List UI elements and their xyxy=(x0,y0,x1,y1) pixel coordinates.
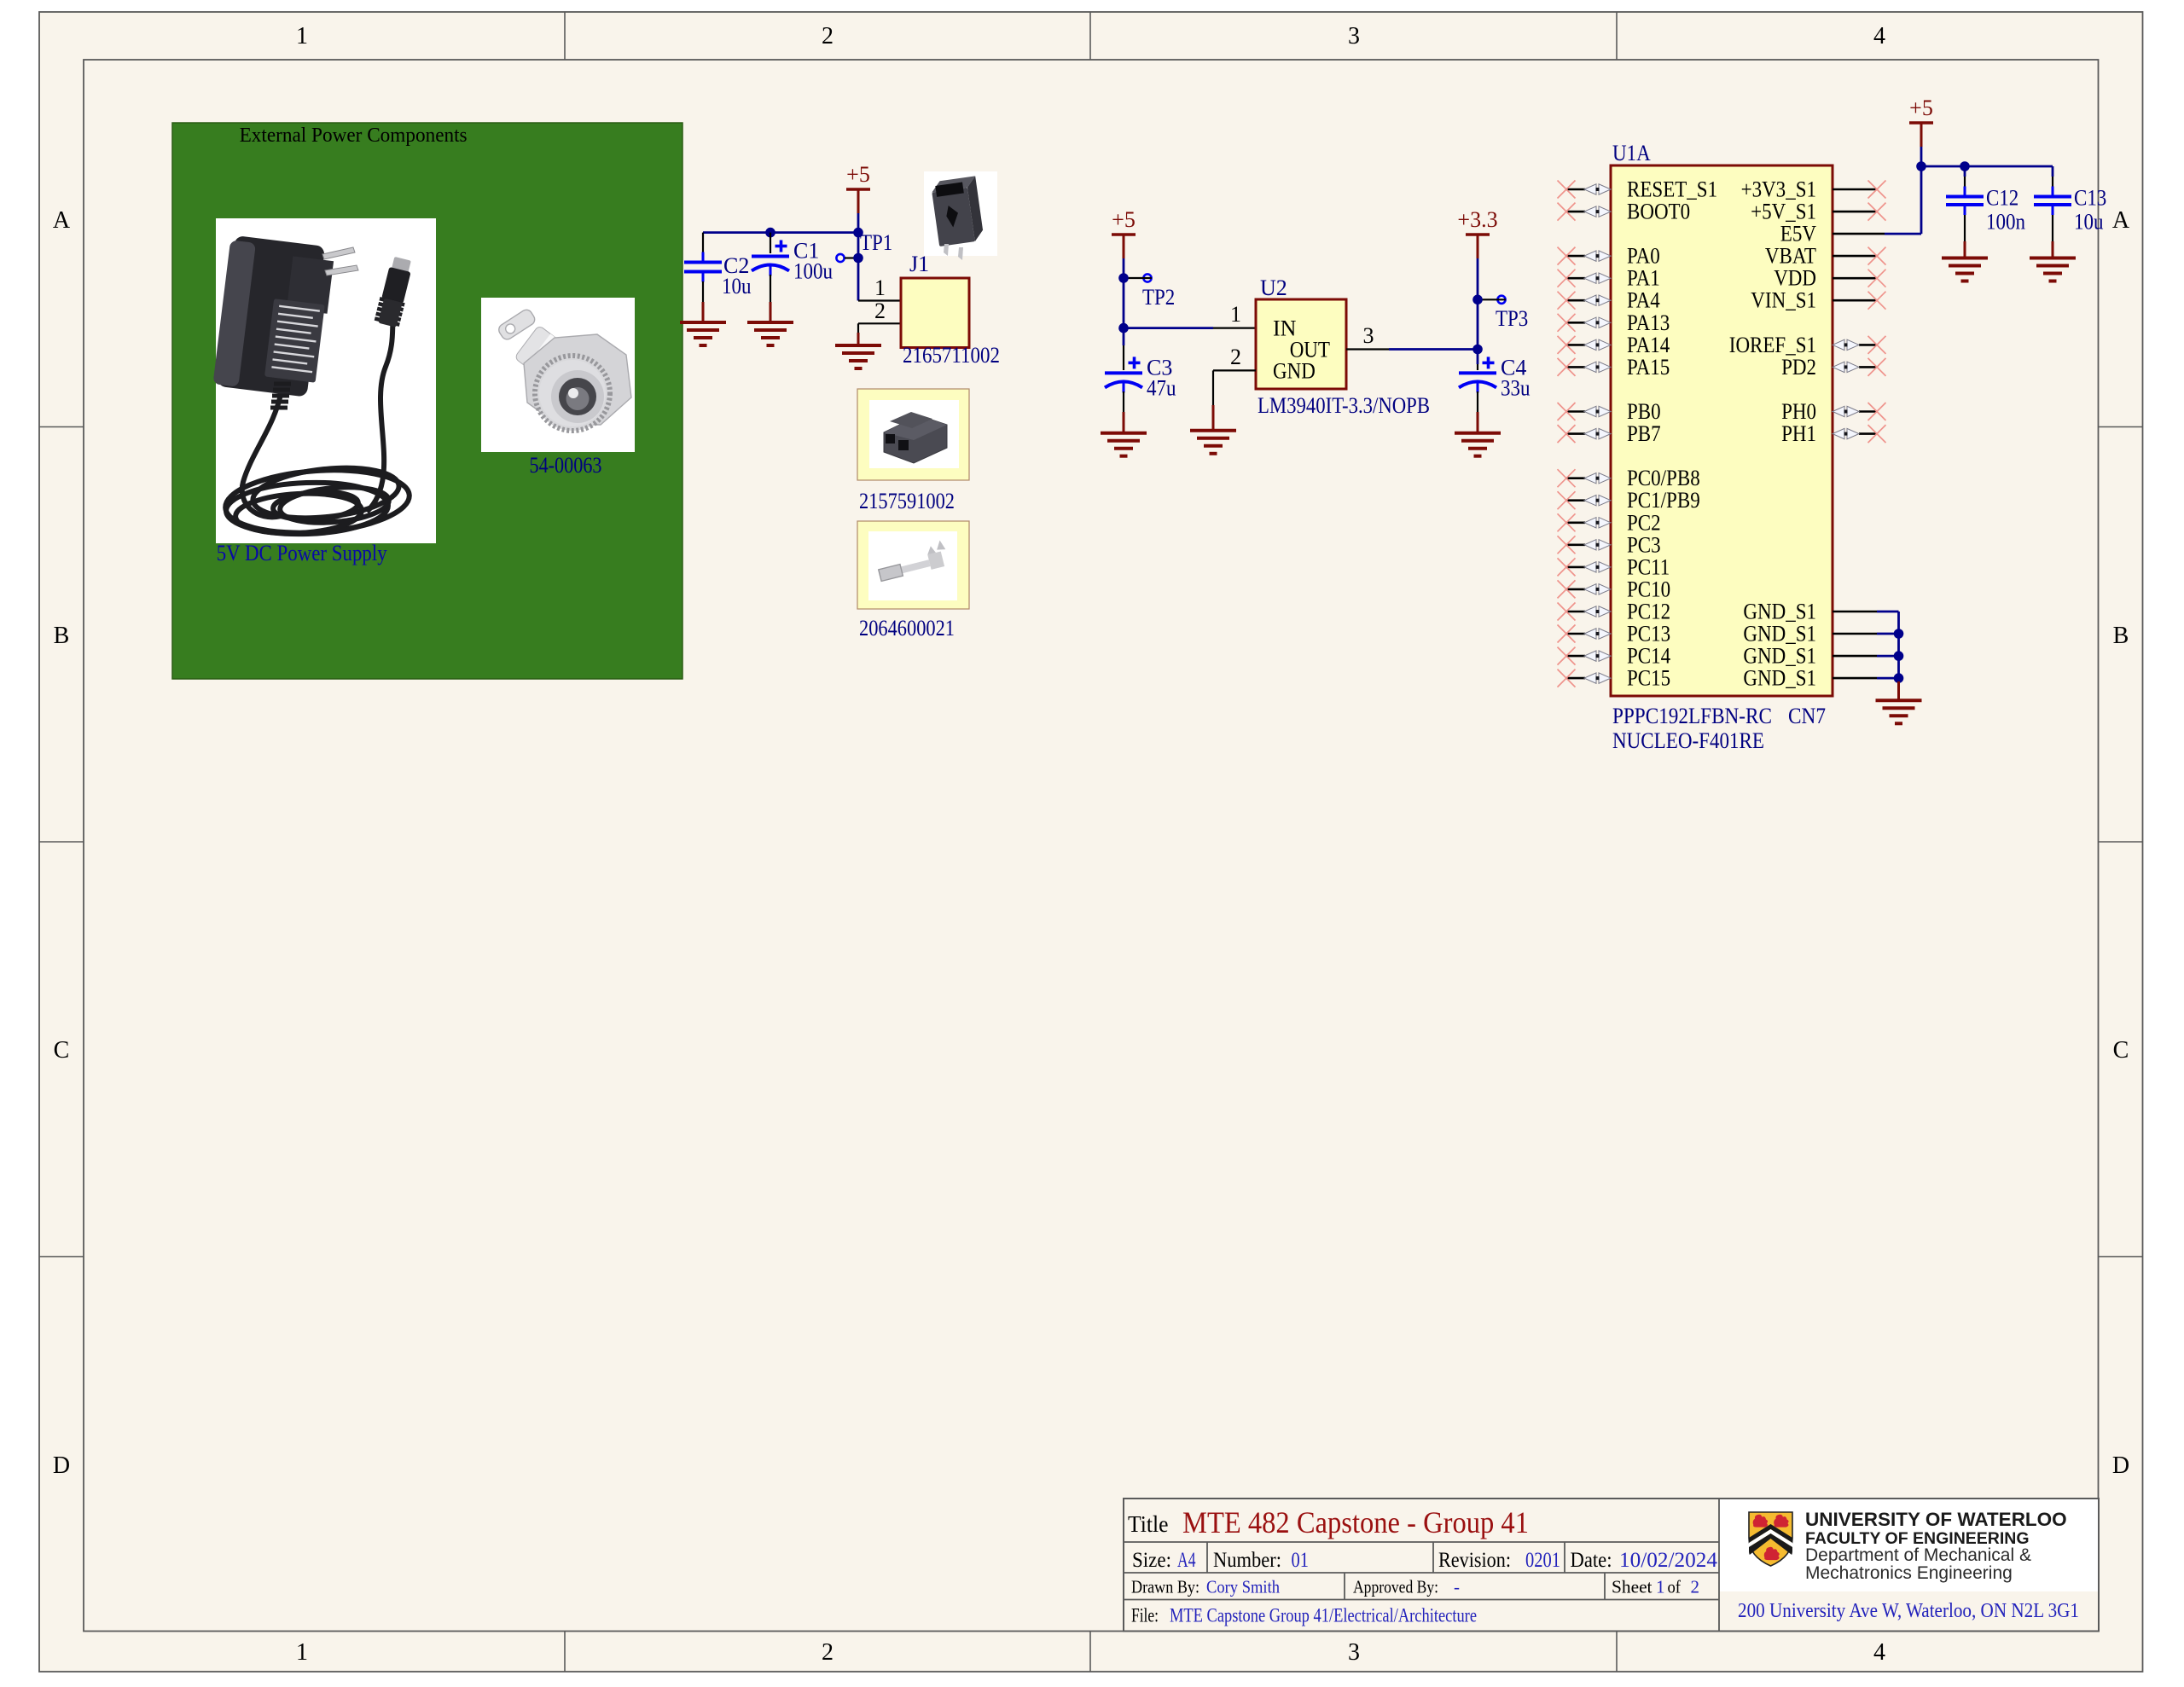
svg-text:File:: File: xyxy=(1131,1605,1159,1626)
svg-text:VDD: VDD xyxy=(1774,266,1816,291)
svg-text:MTE 482 Capstone - Group 41: MTE 482 Capstone - Group 41 xyxy=(1182,1505,1529,1539)
svg-text:PA14: PA14 xyxy=(1627,333,1670,357)
svg-text:1: 1 xyxy=(874,275,886,300)
svg-text:5V DC Power Supply: 5V DC Power Supply xyxy=(217,541,387,565)
svg-text:PH1: PH1 xyxy=(1781,421,1816,446)
svg-text:C13: C13 xyxy=(2074,186,2106,211)
svg-text:47u: 47u xyxy=(1147,375,1176,400)
svg-text:GND: GND xyxy=(1273,358,1316,383)
svg-text:Number:: Number: xyxy=(1213,1549,1281,1572)
svg-text:100u: 100u xyxy=(793,259,833,284)
svg-text:PC1/PB9: PC1/PB9 xyxy=(1627,488,1700,513)
svg-text:UNIVERSITY OF WATERLOO: UNIVERSITY OF WATERLOO xyxy=(1805,1509,2067,1530)
svg-text:PC12: PC12 xyxy=(1627,600,1670,624)
svg-text:2165711002: 2165711002 xyxy=(903,343,1000,368)
svg-text:B: B xyxy=(54,623,70,649)
svg-text:Title: Title xyxy=(1128,1511,1169,1537)
svg-text:200 University Ave W, Waterlo: 200 University Ave W, Waterloo, ON N2L 3… xyxy=(1738,1600,2079,1622)
svg-text:GND_S1: GND_S1 xyxy=(1743,622,1816,646)
svg-text:A: A xyxy=(2112,207,2130,234)
svg-text:4: 4 xyxy=(1873,1639,1885,1666)
svg-text:+5: +5 xyxy=(1909,96,1933,120)
svg-text:2064600021: 2064600021 xyxy=(859,616,955,641)
svg-text:External Power Components: External Power Components xyxy=(240,125,468,147)
svg-text:VIN_S1: VIN_S1 xyxy=(1751,288,1816,313)
svg-text:TP3: TP3 xyxy=(1496,306,1528,331)
svg-text:01: 01 xyxy=(1292,1549,1310,1572)
svg-text:PPPC192LFBN-RC: PPPC192LFBN-RC xyxy=(1612,704,1772,728)
svg-text:TP2: TP2 xyxy=(1142,285,1175,310)
svg-text:MTE Capstone Group 41/Electric: MTE Capstone Group 41/Electrical/Archite… xyxy=(1170,1605,1477,1626)
svg-text:Approved By:: Approved By: xyxy=(1353,1577,1438,1597)
svg-text:PB7: PB7 xyxy=(1627,421,1661,446)
svg-text:PC3: PC3 xyxy=(1627,532,1661,557)
svg-text:NUCLEO-F401RE: NUCLEO-F401RE xyxy=(1612,728,1764,753)
svg-text:PC10: PC10 xyxy=(1627,577,1670,601)
svg-text:PB0: PB0 xyxy=(1627,399,1661,424)
svg-text:TP1: TP1 xyxy=(860,230,892,255)
svg-text:of: of xyxy=(1668,1577,1682,1597)
svg-text:RESET_S1: RESET_S1 xyxy=(1627,177,1717,202)
svg-text:10/02/2024: 10/02/2024 xyxy=(1619,1549,1717,1572)
svg-text:LM3940IT-3.3/NOPB: LM3940IT-3.3/NOPB xyxy=(1258,393,1430,418)
svg-text:PH0: PH0 xyxy=(1781,399,1816,424)
svg-text:VBAT: VBAT xyxy=(1765,244,1816,269)
svg-text:0201: 0201 xyxy=(1525,1549,1560,1572)
svg-text:D: D xyxy=(53,1452,70,1479)
svg-text:PA1: PA1 xyxy=(1627,266,1660,291)
svg-text:CN7: CN7 xyxy=(1788,704,1826,728)
svg-text:PC13: PC13 xyxy=(1627,622,1670,646)
svg-text:+5: +5 xyxy=(1112,207,1136,232)
svg-text:PA15: PA15 xyxy=(1627,355,1670,380)
svg-text:+3.3: +3.3 xyxy=(1457,207,1497,232)
svg-text:54-00063: 54-00063 xyxy=(530,453,602,478)
svg-text:2: 2 xyxy=(822,1639,834,1666)
svg-text:A4: A4 xyxy=(1177,1549,1196,1572)
svg-text:C12: C12 xyxy=(1986,186,2018,211)
svg-text:IOREF_S1: IOREF_S1 xyxy=(1729,333,1816,357)
svg-text:A: A xyxy=(53,207,71,234)
svg-text:+5: +5 xyxy=(846,162,870,187)
svg-text:+5V_S1: +5V_S1 xyxy=(1751,200,1816,224)
svg-text:Sheet: Sheet xyxy=(1612,1577,1653,1597)
svg-text:D: D xyxy=(2112,1452,2129,1479)
svg-text:10u: 10u xyxy=(2074,210,2104,235)
svg-text:U2: U2 xyxy=(1260,275,1287,300)
svg-text:3: 3 xyxy=(1348,1639,1360,1666)
svg-text:PA0: PA0 xyxy=(1627,244,1660,269)
svg-text:PC15: PC15 xyxy=(1627,666,1670,691)
svg-text:1: 1 xyxy=(1230,302,1241,327)
svg-text:100n: 100n xyxy=(1986,210,2025,235)
svg-text:PC2: PC2 xyxy=(1627,510,1661,535)
svg-text:PA4: PA4 xyxy=(1627,288,1660,313)
svg-text:PC11: PC11 xyxy=(1627,554,1670,579)
svg-text:1: 1 xyxy=(296,23,308,49)
svg-text:E5V: E5V xyxy=(1780,222,1816,246)
svg-text:Date:: Date: xyxy=(1571,1549,1612,1572)
svg-text:C: C xyxy=(54,1037,70,1064)
svg-text:PD2: PD2 xyxy=(1781,355,1816,380)
svg-text:GND_S1: GND_S1 xyxy=(1743,644,1816,669)
svg-text:2: 2 xyxy=(874,299,886,323)
svg-text:B: B xyxy=(2113,623,2129,649)
svg-text:33u: 33u xyxy=(1501,375,1531,400)
svg-text:2: 2 xyxy=(822,23,834,49)
svg-text:4: 4 xyxy=(1873,23,1885,49)
svg-text:10u: 10u xyxy=(722,274,752,299)
svg-text:3: 3 xyxy=(1363,323,1374,348)
svg-text:Mechatronics Engineering: Mechatronics Engineering xyxy=(1805,1563,2013,1583)
svg-text:GND_S1: GND_S1 xyxy=(1743,666,1816,691)
svg-text:2: 2 xyxy=(1230,345,1241,369)
svg-text:1: 1 xyxy=(296,1639,308,1666)
svg-text:GND_S1: GND_S1 xyxy=(1743,600,1816,624)
svg-text:Department of Mechanical &: Department of Mechanical & xyxy=(1805,1545,2031,1565)
svg-text:PA13: PA13 xyxy=(1627,310,1670,335)
svg-text:Drawn By:: Drawn By: xyxy=(1131,1577,1199,1597)
svg-text:C: C xyxy=(2113,1037,2129,1064)
svg-text:PC14: PC14 xyxy=(1627,644,1670,669)
svg-text:2157591002: 2157591002 xyxy=(859,489,955,513)
svg-text:Size:: Size: xyxy=(1132,1549,1171,1572)
svg-text:BOOT0: BOOT0 xyxy=(1627,200,1690,224)
svg-text:+3V3_S1: +3V3_S1 xyxy=(1741,177,1816,202)
svg-text:PC0/PB8: PC0/PB8 xyxy=(1627,466,1700,490)
svg-text:Revision:: Revision: xyxy=(1438,1549,1511,1572)
svg-text:-: - xyxy=(1454,1577,1460,1597)
svg-text:Cory Smith: Cory Smith xyxy=(1206,1577,1280,1597)
svg-text:U1A: U1A xyxy=(1612,141,1651,165)
svg-text:1: 1 xyxy=(1656,1577,1665,1597)
svg-text:2: 2 xyxy=(1691,1577,1700,1597)
svg-text:3: 3 xyxy=(1348,23,1360,49)
